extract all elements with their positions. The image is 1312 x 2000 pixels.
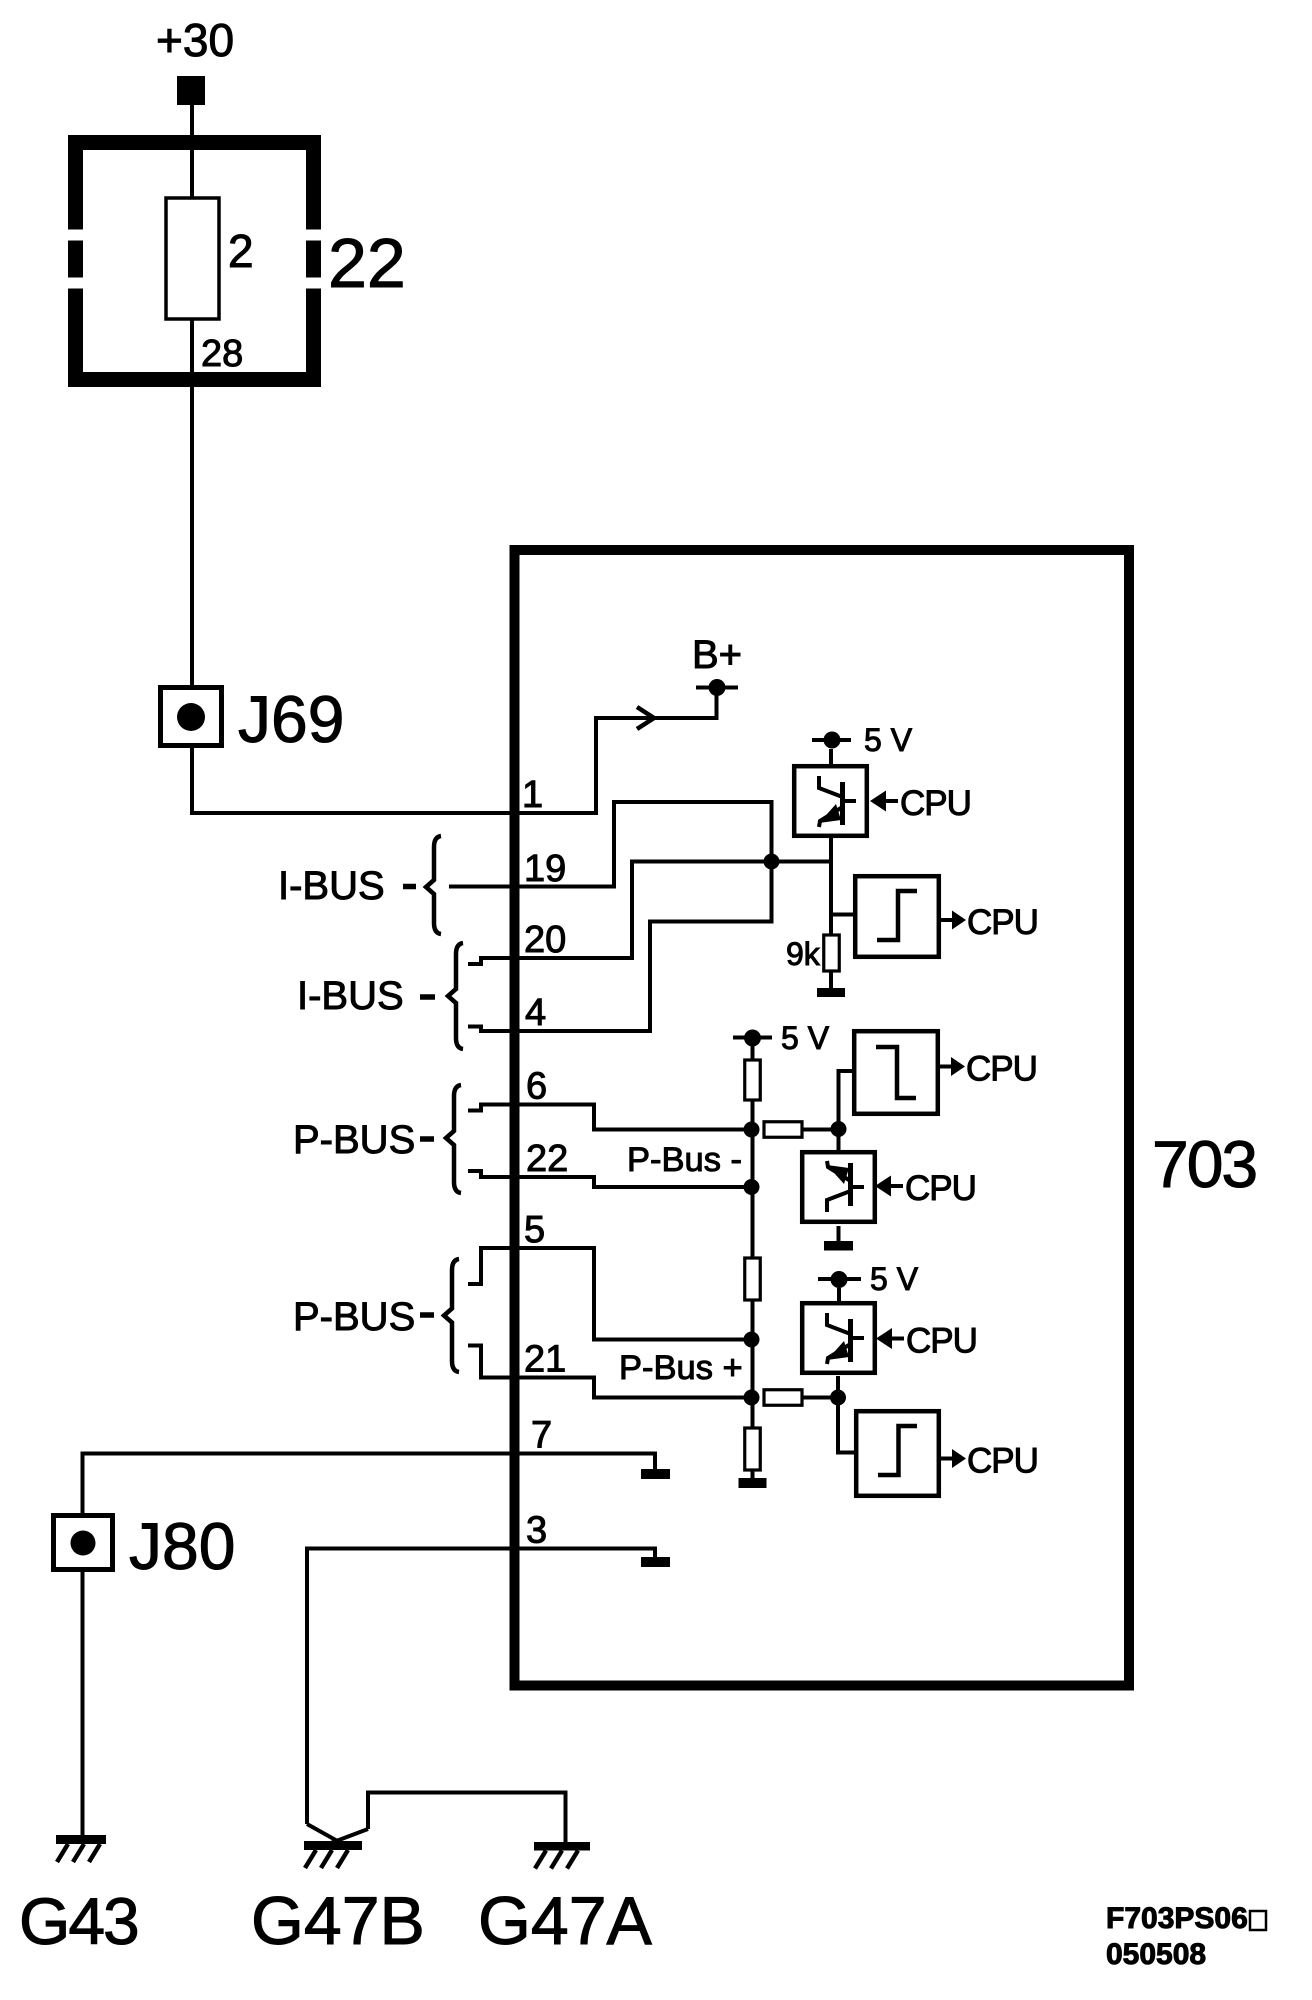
svg-text:G47B: G47B <box>251 1883 425 1959</box>
svg-text:21: 21 <box>524 1339 566 1381</box>
svg-text:CPU: CPU <box>906 1322 977 1361</box>
svg-text:J80: J80 <box>129 1509 235 1583</box>
svg-text:P-Bus +: P-Bus + <box>619 1349 743 1387</box>
svg-text:CPU: CPU <box>967 1442 1038 1481</box>
svg-text:I-BUS: I-BUS <box>278 864 385 908</box>
svg-text:B+: B+ <box>692 633 742 677</box>
svg-text:CPU: CPU <box>966 1050 1037 1089</box>
svg-text:F703PS06: F703PS06 <box>1106 1902 1248 1935</box>
svg-text:2: 2 <box>228 225 254 277</box>
svg-text:G47A: G47A <box>478 1883 653 1959</box>
svg-text:22: 22 <box>328 224 406 302</box>
svg-text:P-Bus -: P-Bus - <box>627 1141 742 1179</box>
svg-text:22: 22 <box>526 1138 568 1180</box>
svg-text:050508: 050508 <box>1106 1938 1206 1971</box>
svg-text:+30: +30 <box>156 14 234 66</box>
svg-text:P-BUS: P-BUS <box>293 1118 415 1162</box>
svg-text:5 V: 5 V <box>864 722 913 758</box>
svg-text:28: 28 <box>201 333 243 375</box>
svg-text:J69: J69 <box>238 682 344 756</box>
svg-text:G43: G43 <box>19 1884 138 1958</box>
svg-text:I-BUS: I-BUS <box>297 974 404 1018</box>
svg-text:5 V: 5 V <box>870 1261 919 1297</box>
svg-text:CPU: CPU <box>900 784 971 823</box>
svg-text:4: 4 <box>525 992 546 1034</box>
svg-text:20: 20 <box>524 919 566 961</box>
svg-text:703: 703 <box>1152 1127 1256 1201</box>
svg-text:1: 1 <box>522 774 543 816</box>
svg-text:CPU: CPU <box>905 1169 976 1208</box>
svg-text:6: 6 <box>526 1066 547 1108</box>
svg-text:5 V: 5 V <box>781 1020 830 1056</box>
svg-text:P-BUS: P-BUS <box>293 1295 415 1339</box>
svg-text:5: 5 <box>524 1209 545 1251</box>
svg-text:9k: 9k <box>786 936 821 972</box>
svg-text:19: 19 <box>524 848 566 890</box>
svg-text:CPU: CPU <box>967 903 1038 942</box>
svg-text:7: 7 <box>531 1415 552 1457</box>
svg-text:3: 3 <box>526 1510 547 1552</box>
